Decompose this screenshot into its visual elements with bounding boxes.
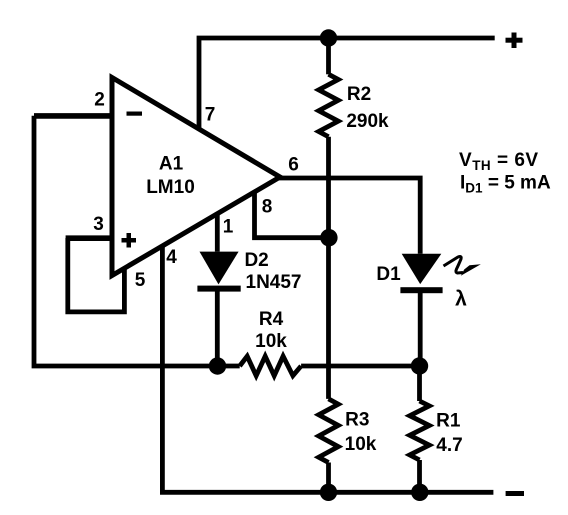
svg-text:D1: D1 <box>376 264 401 285</box>
svg-text:4: 4 <box>166 247 177 268</box>
svg-text:1: 1 <box>223 216 234 237</box>
svg-text:VTH = 6V: VTH = 6V <box>459 150 539 173</box>
svg-text:LM10: LM10 <box>146 177 195 198</box>
svg-text:2: 2 <box>94 89 105 110</box>
svg-text:290k: 290k <box>346 111 389 132</box>
svg-text:8: 8 <box>262 196 273 217</box>
svg-text:R3: R3 <box>345 409 369 430</box>
svg-text:A1: A1 <box>159 154 184 175</box>
svg-text:10k: 10k <box>345 434 377 455</box>
svg-text:4.7: 4.7 <box>436 435 462 456</box>
svg-text:R2: R2 <box>347 84 371 105</box>
svg-text:3: 3 <box>93 214 104 235</box>
svg-text:6: 6 <box>288 154 299 175</box>
svg-text:1N457: 1N457 <box>246 272 302 293</box>
svg-text:D2: D2 <box>244 250 268 271</box>
svg-text:7: 7 <box>205 104 216 125</box>
svg-text:R4: R4 <box>259 309 284 330</box>
svg-text:10k: 10k <box>255 331 287 352</box>
svg-text:R1: R1 <box>436 411 461 432</box>
svg-text:λ: λ <box>455 288 467 311</box>
svg-text:5: 5 <box>135 270 146 291</box>
